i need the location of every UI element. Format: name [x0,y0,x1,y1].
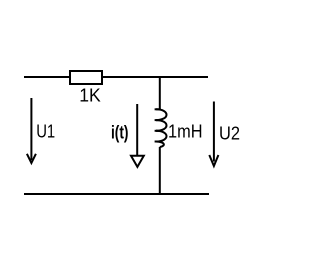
voltage arrow U1 shaft [30,98,32,160]
svg-text:U2: U2 [219,124,240,144]
wire inductor bottom lead [159,147,161,194]
wire top-left segment [24,76,70,78]
svg-text:1K: 1K [79,86,101,106]
wire bottom [24,193,209,195]
svg-text:U1: U1 [36,122,55,142]
inductor L1 coil [155,109,167,147]
voltage arrow U2 shaft [213,102,215,162]
svg-text:i(t): i(t) [111,123,129,143]
voltage arrow U1 head [27,154,36,163]
current arrow i(t) shaft [136,104,138,156]
voltage arrow U2 head [209,155,218,166]
resistor R1 body [70,71,102,84]
current arrow i(t) head [131,156,144,167]
svg-text:1mH: 1mH [168,121,203,141]
node junction top of inductor [159,77,161,109]
wire top-right segment [102,76,208,78]
